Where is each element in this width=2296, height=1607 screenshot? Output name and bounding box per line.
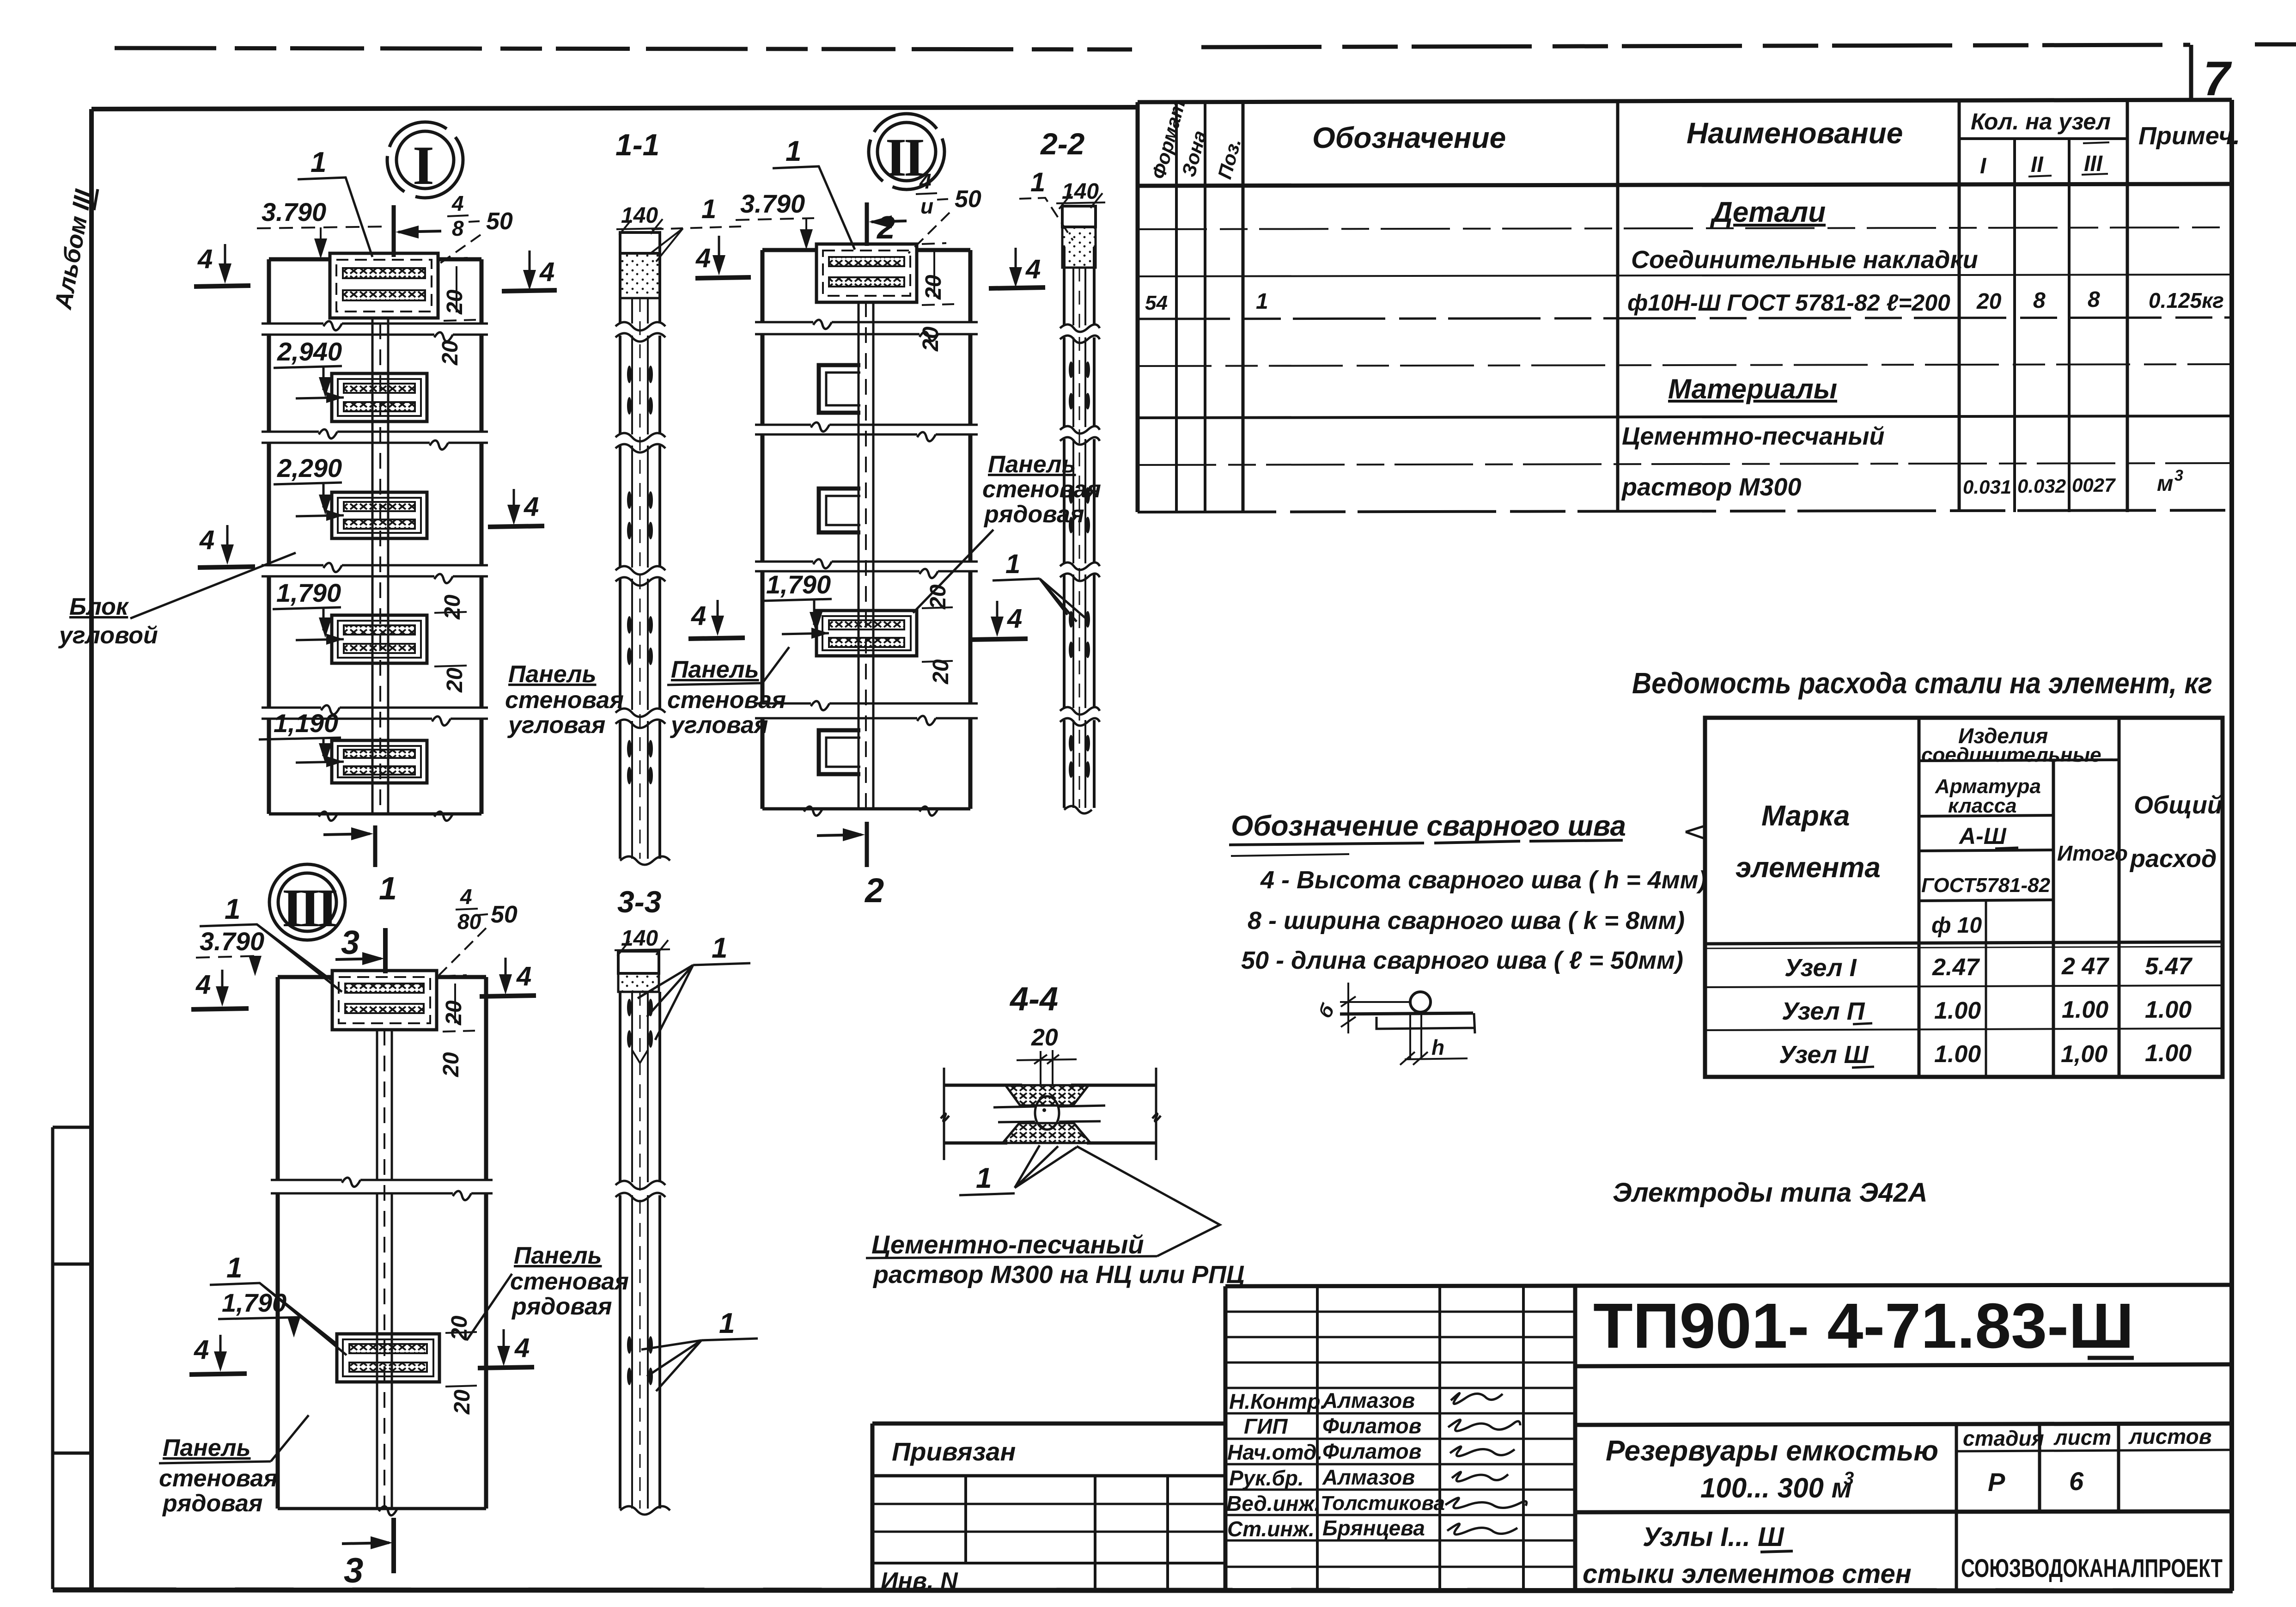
svg-text:I: I [413,134,434,196]
circle label III [269,864,345,940]
section mark 4 top-right [529,251,531,283]
svg-text:20: 20 [1976,289,2002,314]
svg-text:3: 3 [1844,1468,1854,1489]
table row lines [1138,227,2232,229]
svg-text:3.790: 3.790 [740,189,805,218]
svg-text:2 47: 2 47 [2061,953,2109,980]
mid plate box III [337,1334,439,1382]
svg-text:лист: лист [2053,1425,2111,1449]
section mark 4 mid-right [513,489,515,518]
strip 3-3 joint funnel below top plates [632,1050,648,1063]
panel III top edge [278,975,486,979]
svg-text:4: 4 [1007,604,1022,634]
svg-text:угловой: угловой [58,622,158,649]
svg-text:раствор М300: раствор М300 [1621,473,1801,501]
plate marks in strip [627,366,653,784]
svg-text:4: 4 [451,191,464,215]
svg-text:8 - ширина сварного шва ( k: 8 - ширина сварного шва ( k = 8мм) [1248,907,1685,935]
svg-text:4 - Высота сварного шва ( h: 4 - Высота сварного шва ( h = 4мм) [1260,866,1707,894]
svg-text:Резервуары емкостью: Резервуары емкостью [1606,1435,1938,1467]
mortar zone below cap 3-3 [618,973,659,992]
svg-text:h: h [1431,1035,1444,1059]
svg-text:2: 2 [864,871,884,910]
svg-text:2,290: 2,290 [277,453,342,483]
svg-text:Общий: Общий [2134,791,2223,819]
svg-text:6: 6 [2069,1466,2084,1496]
svg-text:20: 20 [919,326,943,352]
svg-text:СОЮЗВОДОКАНАЛПРОЕКТ: СОЮЗВОДОКАНАЛПРОЕКТ [1961,1553,2223,1583]
strip 2-2 break squiggles [1060,324,1100,343]
svg-text:4: 4 [695,243,711,273]
svg-text:1: 1 [712,932,727,964]
mortar zone below cap [620,253,660,298]
svg-text:Панель: Панель [988,451,1076,478]
svg-text:Кол. на узел: Кол. на узел [1971,109,2111,134]
album label: Альбом III [50,184,98,312]
svg-text:элемента: элемента [1736,852,1881,884]
panel III right edge [484,977,488,1509]
svg-text:ТП901- 4-71.83-Ш: ТП901- 4-71.83-Ш [1593,1290,2134,1362]
svg-text:20: 20 [439,1052,463,1077]
svg-text:Панель: Панель [508,661,597,688]
section mark 4 top-right (II) [1015,248,1017,280]
table outer and verticals [1138,100,2232,102]
svg-text:Материалы: Материалы [1668,373,1837,404]
svg-text:1,00: 1,00 [2061,1041,2107,1068]
svg-text:стыки элементов стен: стыки элементов стен [1583,1559,1912,1589]
svg-text:4: 4 [199,525,214,555]
svg-text:Алмазов: Алмазов [1322,1388,1415,1412]
svg-text:Толстикова: Толстикова [1321,1492,1445,1515]
svg-text:20: 20 [440,594,465,620]
panel I left edge [267,259,271,814]
signature squiggles [1451,1393,1503,1404]
svg-text:Узел Ш: Узел Ш [1779,1041,1869,1069]
break line pair 2 [755,425,978,434]
svg-text:ф 10: ф 10 [1931,913,1982,938]
SHEET: top edge dashed line [115,44,2296,49]
svg-text:50: 50 [491,901,518,928]
svg-text:1: 1 [786,135,801,167]
plate lines 4-4 [993,1106,1105,1122]
svg-text:3.790: 3.790 [262,197,326,226]
panel I right edge [480,259,484,814]
header lines [1919,760,2119,761]
svg-text:Р: Р [1988,1467,2005,1497]
svg-text:Ведомость расхода стали на эле: Ведомость расхода стали на элемент, кг [1632,666,2212,700]
signature table column lines [1316,1286,1319,1591]
table outer [1705,718,2223,1077]
section cut mark 2 (top) [865,202,869,246]
svg-text:1-1: 1-1 [615,128,659,162]
svg-text:Обозначение сварного шва: Обозначение сварного шва [1231,810,1626,842]
svg-text:3: 3 [2174,467,2183,484]
svg-text:Наименование: Наименование [1687,116,1903,150]
svg-text:20: 20 [929,659,953,684]
svg-text:1,790: 1,790 [222,1288,286,1317]
svg-text:5.47: 5.47 [2145,953,2192,980]
svg-text:Привязан: Привязан [892,1437,1016,1466]
svg-text:Узел П: Узел П [1782,997,1865,1025]
svg-text:2-2: 2-2 [1040,127,1085,161]
svg-text:2: 2 [876,209,895,245]
svg-text:раствор М300 на НЦ или РПЦ: раствор М300 на НЦ или РПЦ [872,1261,1244,1289]
svg-text:I: I [1980,154,1987,178]
signature table row lines [1225,1311,1575,1313]
panel II right edge [968,250,973,809]
svg-text:ф10Н-Ш ГОСТ 5781-82 ℓ=200: ф10Н-Ш ГОСТ 5781-82 ℓ=200 [1627,290,1950,316]
svg-text:Алмазов: Алмазов [1322,1465,1415,1489]
plate box 2 [296,373,427,422]
table header row lines [1959,137,2127,140]
mortar note [866,1230,1244,1289]
strip edges [1063,247,1066,808]
svg-text:50: 50 [955,186,981,213]
left margin stamp boxes [53,1127,91,1589]
svg-text:1.00: 1.00 [2062,996,2108,1023]
left/right end bars [944,1068,1156,1160]
top plate box II [816,244,917,302]
svg-text:Брянцева: Брянцева [1322,1516,1425,1540]
break line pair 1 [262,324,488,335]
svg-text:Соединительные накладки: Соединительные накладки [1631,246,1978,274]
svg-text:ГИП: ГИП [1244,1414,1288,1438]
joint lines II [859,301,873,809]
verticals [1918,718,1921,1077]
svg-text:III: III [2084,152,2103,176]
svg-text:1.00: 1.00 [1934,997,1981,1024]
svg-text:1.00: 1.00 [2145,1040,2192,1067]
panel II top edge [762,248,970,252]
break line pair 1 [755,322,978,334]
svg-text:20: 20 [921,275,946,300]
top cap [620,232,660,253]
upper weld trapezoid [1005,1085,1089,1106]
svg-text:0.032: 0.032 [2017,475,2066,497]
bottom edge squiggles [319,812,453,821]
П-detail 1 [819,365,860,413]
header/body separator [1705,942,2223,944]
svg-text:54: 54 [1145,292,1168,314]
svg-text:Узел I: Узел I [1784,954,1857,982]
svg-text:4: 4 [524,492,539,522]
dimension 20 (top box) [444,258,476,321]
section cut mark 2 (bottom) [865,822,869,867]
svg-text:ГОСТ5781-82: ГОСТ5781-82 [1921,874,2051,897]
svg-text:4: 4 [514,1333,530,1363]
break line pair III [271,1180,493,1193]
svg-text:III: III [282,878,336,938]
svg-text:3: 3 [341,924,359,961]
svg-text:Цементно-песчаный: Цементно-песчаный [871,1230,1144,1259]
panel II bottom edge [762,807,970,811]
svg-text:140: 140 [1062,179,1099,204]
strip edges 3-3 [619,992,621,1509]
svg-text:II: II [2031,153,2044,177]
svg-text:рядовая: рядовая [162,1490,263,1517]
svg-text:м: м [2157,471,2174,496]
svg-text:1: 1 [379,870,397,906]
svg-text:Детали: Детали [1710,196,1826,228]
svg-text:угловая: угловая [670,712,768,739]
svg-text:Филатов: Филатов [1322,1439,1421,1463]
svg-text:1: 1 [976,1162,992,1194]
dimension 20 (III top box) [443,975,475,1032]
svg-text:стеновая: стеновая [982,476,1101,503]
plate box 4 [296,615,427,663]
break line pair 4 [755,703,978,718]
svg-text:Примеч.: Примеч. [2138,122,2240,150]
strip 3-3 break squiggles [615,1181,665,1201]
svg-text:50 - длина сварного шва ( ℓ: 50 - длина сварного шва ( ℓ = 50мм) [1241,947,1683,974]
svg-text:Марка: Марка [1761,800,1850,832]
svg-text:4-4: 4-4 [1009,981,1058,1018]
mortar zone below cap 2-2 [1062,227,1096,268]
svg-text:Итого: Итого [2057,841,2128,865]
svg-text:1: 1 [719,1308,735,1339]
top cap [1062,206,1096,227]
bottom squiggles II [804,807,938,816]
break line pair 3 [755,562,978,571]
section cut mark 3 (top) [383,928,388,973]
panel III bottom edge [278,1507,486,1510]
svg-text:1: 1 [701,194,716,224]
joint lines III [377,1030,392,1509]
weld mini symbol [1314,983,1475,1065]
panel III left edge [276,977,280,1509]
top cap 3-3 [618,951,659,973]
svg-text:0.125кг: 0.125кг [2149,288,2224,312]
section cut mark 3 (bottom) [391,1518,396,1573]
title block middle line [1575,1424,2232,1425]
svg-text:3.790: 3.790 [200,927,264,956]
svg-text:1.00: 1.00 [1934,1041,1981,1068]
break line pair 2 [262,432,488,443]
small pointer arrow at table left [1686,826,1704,838]
body rows [1705,985,2223,987]
section cut mark 1 (bottom) [373,825,378,867]
svg-text:соединительные: соединительные [1921,744,2101,766]
line above bottom band [1575,1511,2232,1512]
svg-text:1: 1 [1005,549,1020,579]
П-detail 2 [819,489,860,532]
svg-text:4: 4 [539,257,554,287]
svg-text:50: 50 [486,208,513,235]
svg-text:20: 20 [438,340,463,366]
long leader to mortar note [1077,1146,1220,1256]
svg-text:Нач.отд.: Нач.отд. [1227,1440,1322,1464]
П-detail 3 [819,730,860,774]
svg-text:рядовая: рядовая [511,1293,612,1320]
svg-text:1.00: 1.00 [2145,996,2192,1023]
svg-text:80: 80 [457,910,481,934]
svg-text:Вед.инж.: Вед.инж. [1226,1491,1320,1515]
stage/sheet header cells [1955,1425,1958,1512]
page number 7 separator [2189,45,2193,100]
panel I bottom edge [269,813,481,816]
svg-text:стадия: стадия [1963,1426,2044,1450]
svg-text:140: 140 [621,926,658,951]
svg-text:4: 4 [197,244,213,274]
svg-text:4: 4 [691,601,706,631]
svg-text:4: 4 [194,1335,209,1365]
svg-text:0027: 0027 [2072,474,2116,496]
doc number cell line [1575,1364,2232,1366]
plate box 3 [296,492,427,538]
lower weld trapezoid [1003,1123,1090,1143]
svg-text:20: 20 [1031,1024,1058,1051]
svg-text:4: 4 [1025,254,1041,284]
svg-text:3-3: 3-3 [617,885,661,919]
svg-text:Панель: Панель [671,656,759,683]
section mark 4 mid-right (II) [996,601,999,629]
svg-text:20: 20 [450,1389,475,1415]
svg-text:1,790: 1,790 [276,578,341,607]
svg-text:20: 20 [442,1000,466,1026]
break line pair 3 [262,565,488,576]
svg-text:4: 4 [195,970,211,1000]
svg-text:Панель: Панель [163,1435,251,1461]
section cut mark 1 (top) [392,205,396,257]
svg-text:Узлы I... Ш: Узлы I... Ш [1643,1522,1784,1552]
plate box 5 [296,740,427,783]
svg-text:20: 20 [443,667,467,693]
svg-text:20: 20 [443,289,467,315]
svg-text:Обозначение: Обозначение [1312,121,1506,154]
svg-text:3: 3 [344,1551,363,1590]
top plate box III [332,971,437,1030]
circle label II [869,114,944,189]
svg-text:II: II [885,127,923,188]
strip edges [619,253,621,859]
svg-text:класса: класса [1948,794,2017,817]
svg-text:Цементно-песчаный: Цементно-песчаный [1622,422,1884,450]
panel I top edge [269,257,481,262]
panel II left edge [761,250,765,809]
svg-text:стеновая: стеновая [667,687,786,714]
svg-text:Филатов: Филатов [1322,1414,1421,1438]
svg-text:Ст.инж.: Ст.инж. [1227,1517,1315,1541]
svg-text:1: 1 [1030,167,1045,197]
svg-text:А-Ш: А-Ш [1958,823,2007,849]
section mark 4 mid-right (III) [503,1329,505,1359]
central weld blob [1035,1096,1059,1130]
section mark 4 top-right (III) [505,958,507,987]
svg-text:расход: расход [2129,845,2217,873]
svg-text:4: 4 [516,961,531,991]
svg-text:Н.Контр.: Н.Контр. [1229,1389,1326,1413]
svg-text:0.031: 0.031 [1963,476,2011,498]
svg-text:листов: листов [2128,1424,2211,1448]
svg-text:Электроды типа Э42А: Электроды типа Э42А [1613,1178,1927,1208]
strip break squiggles [615,322,665,342]
dimension 20 (II top box) [922,243,954,305]
plate box II mid [782,611,917,656]
circle label I [387,122,463,198]
svg-text:8: 8 [2033,288,2046,313]
joint lines [372,324,388,814]
svg-text:стеновая: стеновая [505,687,624,714]
svg-text:Блок: Блок [69,593,129,620]
svg-text:140: 140 [621,203,658,228]
plate marks in strip 3-3 [627,999,653,1385]
break line pair 4 [262,708,488,719]
svg-text:100... 300 м: 100... 300 м [1700,1473,1852,1503]
signature table outer [1225,1285,2232,1286]
svg-text:2,940: 2,940 [277,337,342,366]
bottom squiggle III [379,1506,397,1515]
svg-text:угловая: угловая [507,712,605,739]
svg-text:стеновая: стеновая [159,1465,278,1492]
top plate box [330,253,438,324]
svg-text:Панель: Панель [514,1242,602,1269]
svg-text:8: 8 [2088,287,2100,312]
svg-text:1: 1 [226,1252,242,1284]
plate marks in strip 2-2 [1069,361,1090,778]
svg-text:2.47: 2.47 [1932,954,1980,981]
svg-text:1,790: 1,790 [766,570,831,599]
svg-text:4: 4 [460,885,472,909]
svg-text:и: и [920,194,933,218]
svg-text:4: 4 [919,169,932,193]
svg-text:1: 1 [1256,289,1268,314]
svg-text:стеновая: стеновая [510,1268,629,1295]
svg-text:1,190: 1,190 [274,709,338,738]
svg-text:Инв. N: Инв. N [881,1568,958,1595]
svg-text:8: 8 [452,216,464,240]
svg-text:1: 1 [311,147,326,178]
panel strip 4-4 top/bottom edges [944,1084,1156,1087]
svg-text:7: 7 [2203,52,2232,106]
svg-text:Рук.бр.: Рук.бр. [1229,1466,1304,1490]
svg-text:1: 1 [225,893,240,925]
